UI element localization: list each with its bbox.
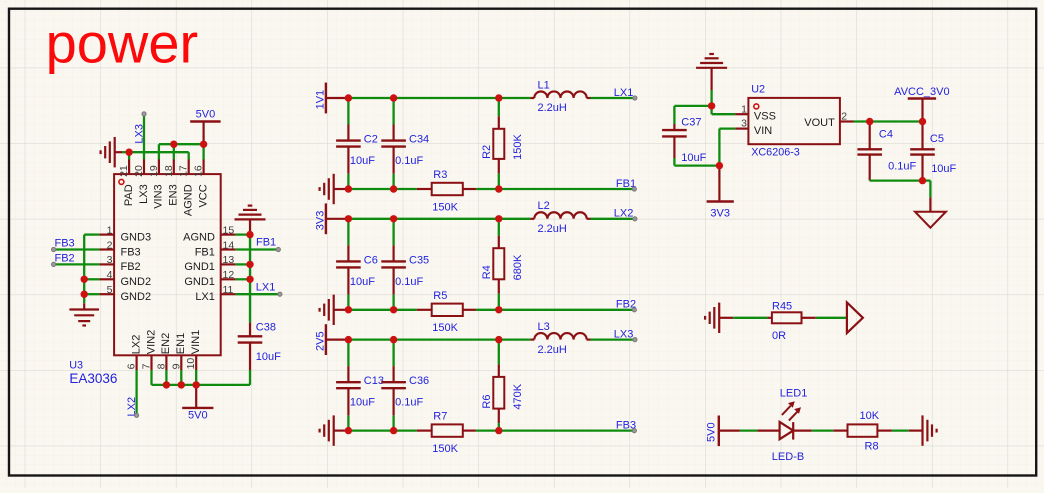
- U3 value EA3036: [69, 371, 117, 386]
- svg-text:20: 20: [133, 165, 145, 177]
- svg-text:LX3: LX3: [138, 184, 150, 204]
- svg-text:R45: R45: [772, 300, 792, 312]
- junction C13 bottom: [345, 427, 352, 434]
- svg-text:21: 21: [118, 165, 130, 177]
- svg-text:AVCC_3V0: AVCC_3V0: [894, 86, 949, 98]
- C38 label: [256, 322, 276, 334]
- junction pin12: [246, 276, 253, 283]
- net label FB2: [616, 299, 636, 311]
- U2 reference label: [751, 84, 765, 96]
- junction C34 bottom: [390, 185, 397, 192]
- R4 label: [481, 265, 493, 279]
- junction AVCC_3V0: [919, 118, 926, 125]
- svg-text:LX2: LX2: [614, 208, 634, 220]
- svg-text:2V5: 2V5: [315, 331, 327, 351]
- R5 label: [433, 290, 447, 302]
- junction R6 bottom: [495, 427, 502, 434]
- inductor L1: [530, 91, 590, 98]
- wire FB1 out: [476, 188, 499, 190]
- R45 value 0R: [772, 330, 786, 342]
- svg-text:9: 9: [170, 363, 182, 369]
- power port 1V1: [315, 83, 345, 114]
- wire 2V5 rail: [345, 338, 530, 340]
- svg-text:VIN1: VIN1: [190, 330, 202, 354]
- C2 value 10uF: [350, 155, 375, 167]
- net label LX2: [126, 397, 138, 417]
- U3 pin numbers: [107, 165, 235, 369]
- junction pin21: [125, 149, 132, 156]
- junction pin8: [163, 381, 170, 388]
- U3 pin names: [121, 184, 215, 354]
- svg-text:1: 1: [741, 103, 747, 115]
- svg-text:5V0: 5V0: [196, 108, 216, 120]
- junction pin10: [193, 381, 200, 388]
- C35 label: [409, 254, 429, 266]
- wire gnd to VSS: [712, 90, 736, 114]
- wire R45 to arrow: [816, 317, 847, 319]
- node LX2 endpoint: [633, 217, 637, 221]
- junction R4 top: [495, 215, 502, 222]
- svg-text:3: 3: [741, 118, 747, 130]
- U3 pin stubs: [99, 159, 235, 370]
- C34 value 0.1uF: [395, 155, 423, 167]
- wire AGND/GND1 bus: [235, 235, 250, 323]
- C2 label: [364, 134, 378, 146]
- svg-text:VOUT: VOUT: [804, 117, 835, 129]
- svg-text:10uF: 10uF: [681, 152, 706, 164]
- wire FB1 long: [499, 188, 635, 190]
- junction 3V3: [716, 162, 723, 169]
- C13 label: [364, 375, 384, 387]
- wire VOUT: [854, 120, 923, 122]
- svg-text:14: 14: [223, 239, 235, 251]
- resistor R6: [493, 340, 504, 431]
- svg-text:8: 8: [155, 363, 167, 369]
- junction C2 top: [345, 94, 352, 101]
- svg-text:12: 12: [223, 269, 235, 281]
- C13 value 10uF: [350, 397, 375, 409]
- capacitor C5: [910, 122, 935, 181]
- svg-text:LED1: LED1: [780, 388, 808, 400]
- wire GND bus (pins 1,4,5): [84, 235, 99, 304]
- svg-text:GND1: GND1: [184, 276, 215, 288]
- wire FB3 out: [476, 429, 499, 431]
- junction C6 top: [345, 215, 352, 222]
- junction C4 top: [866, 118, 873, 125]
- net label FB1: [256, 237, 276, 249]
- svg-text:GND3: GND3: [121, 231, 152, 243]
- wire 5V0 to LED1: [740, 429, 758, 431]
- svg-text:R7: R7: [433, 411, 447, 423]
- svg-text:LED-B: LED-B: [772, 451, 804, 463]
- R3 label: [433, 169, 447, 181]
- capacitor C13: [336, 340, 361, 431]
- svg-text:C6: C6: [364, 254, 378, 266]
- svg-text:0R: 0R: [772, 330, 786, 342]
- svg-text:0.1uF: 0.1uF: [395, 155, 423, 167]
- svg-text:VIN3: VIN3: [153, 184, 165, 208]
- wire FB2 out: [476, 309, 499, 311]
- svg-text:LX1: LX1: [256, 281, 276, 293]
- node LX1 endpoint: [278, 292, 282, 296]
- svg-text:2: 2: [107, 239, 113, 251]
- L3 value 2.2uH: [538, 344, 567, 356]
- R2 label: [481, 145, 493, 159]
- wire pin21 to pin17: [129, 152, 189, 159]
- title power: [46, 12, 199, 75]
- inductor L2: [530, 212, 590, 219]
- svg-text:3: 3: [107, 254, 113, 266]
- C37 label: [681, 117, 701, 129]
- svg-text:3V3: 3V3: [315, 211, 327, 231]
- ground (R45 left): [705, 303, 733, 333]
- R3 value 150K: [432, 201, 458, 213]
- C5 value 10uF: [931, 163, 956, 175]
- svg-text:0.1uF: 0.1uF: [395, 276, 423, 288]
- svg-text:2.2uH: 2.2uH: [538, 223, 567, 235]
- power port 5V0 (LED row): [706, 416, 740, 447]
- svg-text:150K: 150K: [432, 443, 458, 455]
- svg-text:FB2: FB2: [55, 253, 75, 265]
- svg-text:FB3: FB3: [121, 246, 141, 258]
- junction R6 top: [495, 336, 502, 343]
- L1 value 2.2uH: [538, 102, 567, 114]
- svg-text:5: 5: [107, 284, 113, 296]
- svg-text:10uF: 10uF: [350, 397, 375, 409]
- capacitor C4: [857, 122, 882, 181]
- node LX3 endpoint: [633, 338, 637, 342]
- ground (FB3 row): [320, 415, 345, 445]
- C34 label: [409, 134, 429, 146]
- svg-text:EN2: EN2: [160, 333, 172, 354]
- power port 5V0 (U3 top): [190, 108, 220, 144]
- junction C2 bottom: [345, 185, 352, 192]
- svg-text:10uF: 10uF: [931, 163, 956, 175]
- capacitor C35: [381, 219, 406, 310]
- wire LX3 out: [591, 338, 635, 340]
- net label LX2: [614, 208, 634, 220]
- svg-text:VCC: VCC: [197, 184, 209, 207]
- resistor R2: [493, 98, 504, 189]
- svg-text:GND1: GND1: [184, 261, 215, 273]
- svg-text:LX3: LX3: [134, 124, 146, 144]
- wire LX2 from pin 6: [135, 370, 137, 415]
- net label LX1: [256, 281, 276, 293]
- svg-text:L3: L3: [538, 321, 550, 333]
- net label FB2: [55, 253, 75, 265]
- R6 value 470K: [512, 383, 524, 409]
- svg-text:R4: R4: [481, 265, 493, 279]
- svg-text:C37: C37: [681, 117, 701, 129]
- power port 3V3 (below C37): [707, 166, 734, 220]
- junction C37 top: [708, 102, 715, 109]
- svg-text:C13: C13: [364, 375, 384, 387]
- R8 label: [865, 441, 879, 453]
- C37 value 10uF: [681, 152, 706, 164]
- resistor R8: [833, 424, 892, 436]
- capacitor C36: [381, 340, 406, 431]
- L2 label: [538, 200, 550, 212]
- svg-text:FB1: FB1: [256, 237, 276, 249]
- svg-text:4: 4: [107, 269, 113, 281]
- svg-text:3V3: 3V3: [710, 207, 730, 219]
- R5 value 150K: [432, 322, 458, 334]
- wire C4 bottom: [870, 179, 923, 181]
- junction C13 top: [345, 336, 352, 343]
- R45 label: [772, 300, 792, 312]
- node LX2 endpoint: [135, 413, 139, 417]
- capacitor C37: [662, 106, 687, 166]
- svg-text:150K: 150K: [432, 201, 458, 213]
- svg-text:R8: R8: [865, 441, 879, 453]
- net label FB1: [616, 178, 636, 190]
- junction C36 top: [390, 336, 397, 343]
- junction C5 bottom: [919, 177, 926, 184]
- svg-text:FB1: FB1: [195, 246, 215, 258]
- wire gnd to R45: [733, 317, 767, 319]
- svg-text:LX1: LX1: [614, 87, 634, 99]
- net label FB3: [616, 420, 636, 432]
- svg-text:C36: C36: [409, 375, 429, 387]
- svg-text:VIN2: VIN2: [145, 330, 157, 354]
- svg-text:680K: 680K: [512, 254, 524, 280]
- wire LX3 stub: [143, 114, 145, 160]
- U3 reference label: [69, 359, 83, 371]
- svg-text:FB3: FB3: [55, 238, 75, 250]
- node LX1 endpoint: [633, 96, 637, 100]
- wire gnd to R3: [345, 188, 417, 190]
- wire LX1 out: [591, 97, 635, 99]
- svg-text:10K: 10K: [860, 410, 880, 422]
- junction pin5: [81, 291, 88, 298]
- wire 5V0 bus (pins 7,8,9,10, C38): [152, 370, 251, 385]
- svg-text:L1: L1: [538, 79, 550, 91]
- svg-text:10: 10: [185, 358, 197, 370]
- svg-text:470K: 470K: [512, 383, 524, 409]
- svg-text:VIN: VIN: [754, 125, 772, 137]
- svg-text:U2: U2: [751, 84, 765, 96]
- C6 label: [364, 254, 378, 266]
- node FB1 endpoint: [632, 187, 636, 191]
- R4 value 680K: [512, 254, 524, 280]
- junction C35 top: [390, 215, 397, 222]
- L1 label: [538, 79, 550, 91]
- junction C6 bottom: [345, 306, 352, 313]
- LED1 value LED-B: [772, 451, 804, 463]
- svg-text:AGND: AGND: [183, 184, 195, 216]
- svg-text:5V0: 5V0: [706, 422, 718, 442]
- arrow symbol (antenna): [847, 303, 863, 334]
- junction C36 bottom: [390, 427, 397, 434]
- junction pin4: [81, 276, 88, 283]
- svg-text:10uF: 10uF: [350, 276, 375, 288]
- svg-text:power: power: [46, 12, 199, 75]
- resistor R45: [767, 312, 815, 323]
- svg-text:GND2: GND2: [121, 276, 152, 288]
- resistor R5: [417, 304, 476, 316]
- wire FB1 from pin 14: [235, 248, 278, 250]
- node FB1 endpoint: [276, 247, 280, 251]
- svg-text:1V1: 1V1: [315, 90, 327, 110]
- U2 pin stubs: [735, 114, 853, 128]
- svg-text:LX2: LX2: [130, 335, 142, 355]
- svg-text:VSS: VSS: [754, 111, 776, 123]
- wire LED1 to R8: [812, 429, 834, 431]
- C38 value 10uF: [256, 351, 281, 363]
- power port AVCC_3V0: [894, 86, 949, 122]
- junction pin15: [246, 231, 253, 238]
- ground (above pin 15): [235, 206, 266, 235]
- wire FB2 to pin 3: [54, 263, 100, 265]
- ground (LED row right): [909, 415, 937, 445]
- regulator U2 body: [748, 98, 840, 144]
- wire FB2 long: [499, 309, 635, 311]
- junction pin13: [246, 261, 253, 268]
- svg-text:19: 19: [148, 165, 160, 177]
- svg-text:15: 15: [223, 224, 235, 236]
- U2 value XC6206-3: [751, 147, 800, 159]
- svg-text:EN3: EN3: [168, 184, 180, 205]
- ground (FB1 row): [320, 174, 345, 204]
- C36 label: [409, 375, 429, 387]
- svg-text:1: 1: [107, 224, 113, 236]
- C4 value 0.1uF: [888, 161, 916, 173]
- wire 5V0 rail (pins 19,18,16): [159, 144, 204, 159]
- svg-text:C35: C35: [409, 254, 429, 266]
- net label LX3: [134, 124, 146, 144]
- wire FB3 long: [499, 429, 635, 431]
- R7 value 150K: [432, 443, 458, 455]
- ground (FB2 row): [320, 295, 345, 325]
- U2 pin names: [754, 111, 835, 137]
- svg-text:R5: R5: [433, 290, 447, 302]
- junction R2 top: [495, 94, 502, 101]
- node LX3 endpoint: [142, 112, 146, 116]
- svg-text:XC6206-3: XC6206-3: [751, 147, 800, 159]
- IC U3 body: [114, 174, 221, 355]
- power port 5V0 (U3 bottom): [182, 385, 213, 422]
- R8 value 10K: [860, 410, 880, 422]
- wire gnd to R5: [345, 309, 417, 311]
- svg-text:EN1: EN1: [175, 333, 187, 354]
- C36 value 0.1uF: [395, 397, 423, 409]
- L2 value 2.2uH: [538, 223, 567, 235]
- capacitor C2: [336, 98, 361, 189]
- wire PGND to pin 21: [122, 151, 129, 153]
- junction C34 top: [390, 94, 397, 101]
- wire C37 top: [674, 105, 711, 107]
- svg-text:6: 6: [126, 363, 138, 369]
- svg-text:16: 16: [193, 165, 205, 177]
- node FB3 endpoint: [52, 247, 56, 251]
- svg-text:C2: C2: [364, 134, 378, 146]
- svg-text:2: 2: [841, 111, 847, 123]
- R2 value 150K: [512, 134, 524, 160]
- resistor R7: [417, 424, 476, 436]
- ground (U3 top-left): [101, 137, 122, 167]
- resistor R3: [417, 183, 476, 195]
- C4 label: [879, 129, 893, 141]
- R7 label: [433, 411, 447, 423]
- wire 3V3 rail: [345, 218, 530, 220]
- node FB2 endpoint: [632, 308, 636, 312]
- svg-text:17: 17: [178, 165, 190, 177]
- svg-text:LX3: LX3: [614, 329, 634, 341]
- svg-text:C38: C38: [256, 322, 276, 334]
- svg-text:U3: U3: [69, 359, 83, 371]
- wire LX1 from pin 11: [235, 293, 280, 295]
- svg-text:FB2: FB2: [121, 261, 141, 273]
- inductor L3: [530, 333, 590, 340]
- svg-text:11: 11: [223, 284, 234, 296]
- capacitor C6: [336, 219, 361, 310]
- svg-text:2.2uH: 2.2uH: [538, 344, 567, 356]
- R6 label: [481, 395, 493, 409]
- svg-text:C4: C4: [879, 129, 893, 141]
- node FB3 endpoint: [632, 429, 636, 433]
- ground (below U3 left): [69, 303, 99, 325]
- svg-text:5V0: 5V0: [188, 410, 208, 422]
- svg-text:10uF: 10uF: [256, 351, 281, 363]
- svg-text:LX1: LX1: [195, 291, 215, 303]
- net label LX3: [614, 329, 634, 341]
- svg-text:2.2uH: 2.2uH: [538, 102, 567, 114]
- earth ground (triangle): [915, 212, 946, 228]
- C35 value 0.1uF: [395, 276, 423, 288]
- LED1 label: [780, 388, 808, 400]
- wire R8 to gnd: [892, 429, 909, 431]
- wire LX2 out: [591, 218, 635, 220]
- svg-text:18: 18: [163, 165, 175, 177]
- ground (above U2): [696, 54, 727, 90]
- svg-text:PAD: PAD: [123, 184, 135, 206]
- svg-text:13: 13: [223, 254, 235, 266]
- svg-text:7: 7: [141, 363, 153, 369]
- wire to earth ground: [923, 181, 931, 212]
- junction R4 bottom: [495, 306, 502, 313]
- svg-text:EA3036: EA3036: [69, 371, 117, 386]
- svg-text:0.1uF: 0.1uF: [395, 397, 423, 409]
- svg-text:L2: L2: [538, 200, 550, 212]
- net label LX1: [614, 87, 634, 99]
- svg-text:C34: C34: [409, 134, 429, 146]
- wire gnd to R7: [345, 429, 417, 431]
- svg-text:150K: 150K: [432, 322, 458, 334]
- junction pin9: [178, 381, 185, 388]
- svg-text:R2: R2: [481, 145, 493, 159]
- svg-text:C5: C5: [930, 133, 944, 145]
- wire FB3 to pin 2: [54, 248, 100, 250]
- wire C37 bottom to VIN: [674, 129, 735, 166]
- svg-text:10uF: 10uF: [350, 155, 375, 167]
- junction pin16/5V0: [200, 141, 207, 148]
- resistor R4: [493, 219, 504, 310]
- C5 label: [930, 133, 944, 145]
- capacitor C38: [238, 323, 263, 370]
- wire 1V1 rail: [345, 97, 530, 99]
- L3 label: [538, 321, 550, 333]
- svg-text:0.1uF: 0.1uF: [888, 161, 916, 173]
- svg-text:GND2: GND2: [121, 291, 152, 303]
- node FB2 endpoint: [52, 262, 56, 266]
- svg-text:R6: R6: [481, 395, 493, 409]
- junction R2 bottom: [495, 185, 502, 192]
- svg-text:150K: 150K: [512, 134, 524, 160]
- U2 pin numbers: [741, 103, 847, 129]
- junction pin18: [170, 141, 177, 148]
- power port 2V5: [315, 324, 345, 355]
- svg-text:AGND: AGND: [183, 231, 215, 243]
